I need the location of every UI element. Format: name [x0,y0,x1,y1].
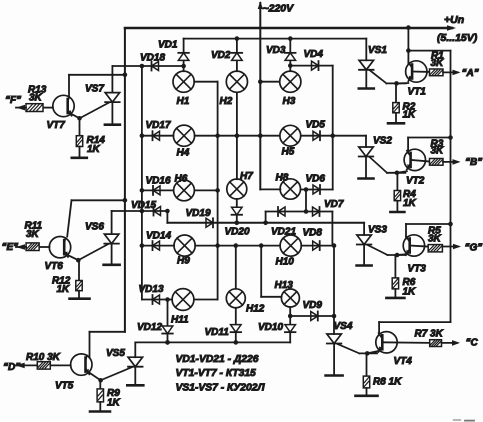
svg-text:VD17: VD17 [146,120,171,131]
svg-text:VT4: VT4 [394,356,413,367]
svg-text:VS2: VS2 [373,136,392,147]
svg-text:VT3: VT3 [408,264,427,275]
svg-text:“G”: “G” [465,243,483,254]
svg-text:VS4: VS4 [334,321,353,332]
svg-text:VD11: VD11 [205,327,230,338]
svg-text:R7 3K: R7 3K [415,329,444,340]
svg-text:VD7: VD7 [324,199,344,210]
svg-text:VD8: VD8 [303,228,323,239]
svg-text:VD4: VD4 [304,49,324,60]
svg-text:“E”: “E” [2,242,19,253]
svg-text:VS7: VS7 [85,84,104,95]
svg-text:“C: “C [466,338,479,349]
svg-text:1K: 1K [403,198,417,209]
svg-text:H9: H9 [177,256,190,267]
svg-text:H12: H12 [246,304,265,315]
svg-text:VT7: VT7 [47,120,66,131]
svg-text:3K: 3K [26,229,40,240]
svg-text:VD12: VD12 [137,322,162,333]
svg-text:“D”: “D” [3,362,20,373]
svg-text:VT1-VT7 - КТ315: VT1-VT7 - КТ315 [176,368,257,379]
svg-text:VS5: VS5 [106,348,125,359]
svg-text:VT6: VT6 [45,261,64,272]
svg-text:3K: 3K [428,233,442,244]
svg-text:VS1-VS7 - КУ202Л: VS1-VS7 - КУ202Л [176,383,266,394]
svg-text:VT2: VT2 [406,176,425,187]
svg-text:VT1: VT1 [408,87,427,98]
svg-text:VT5: VT5 [55,381,74,392]
svg-text:H10: H10 [276,257,295,268]
svg-text:3K: 3K [29,93,43,104]
svg-text:“F”: “F” [5,95,21,106]
svg-text:VD18: VD18 [140,53,165,64]
svg-text:H4: H4 [177,148,190,159]
svg-text:VD3: VD3 [266,45,286,56]
svg-text:VS6: VS6 [85,222,104,233]
svg-text:R8 1K: R8 1K [373,377,402,388]
svg-text:VD14: VD14 [146,231,171,242]
svg-text:H11: H11 [171,315,189,326]
svg-text:1K: 1K [403,110,417,121]
svg-text:VD9: VD9 [303,300,323,311]
svg-text:H7: H7 [240,171,253,182]
svg-text:VS3: VS3 [368,225,387,236]
svg-text:VD1: VD1 [158,40,178,51]
svg-text:1K: 1K [87,144,101,155]
svg-text:(5...15V): (5...15V) [437,32,478,44]
svg-text:H6: H6 [175,174,188,185]
svg-text:H5: H5 [282,147,295,158]
svg-text:3K: 3K [431,146,445,157]
svg-text:VS1: VS1 [368,45,387,56]
svg-text:VD19: VD19 [186,208,211,219]
svg-text:VD2: VD2 [211,50,231,61]
svg-text:H3: H3 [283,96,296,107]
svg-text:1K: 1K [403,286,417,297]
svg-text:VD1-VD21 - Д226: VD1-VD21 - Д226 [176,354,259,365]
svg-text:3K: 3K [431,58,445,69]
svg-text:VD13: VD13 [139,284,164,295]
svg-text:H1: H1 [177,96,190,107]
svg-text:H8: H8 [276,173,289,184]
svg-text:VD5: VD5 [306,120,326,131]
svg-text:~220V: ~220V [263,3,295,15]
svg-text:VD6: VD6 [306,174,326,185]
svg-text:VD15: VD15 [131,200,156,211]
svg-text:“A”: “A” [462,68,479,79]
svg-text:“B”: “B” [465,157,482,168]
svg-text:R10 3K: R10 3K [26,352,61,363]
svg-text:1K: 1K [57,284,71,295]
svg-text:VD10: VD10 [258,322,283,333]
svg-text:H2: H2 [220,96,233,107]
svg-text:VD16: VD16 [146,176,171,187]
svg-text:1K: 1K [107,398,121,409]
svg-text:VD21: VD21 [271,227,296,238]
svg-text:H13: H13 [275,280,294,291]
svg-text:VD20: VD20 [225,227,250,238]
svg-text:+Un: +Un [444,14,464,26]
